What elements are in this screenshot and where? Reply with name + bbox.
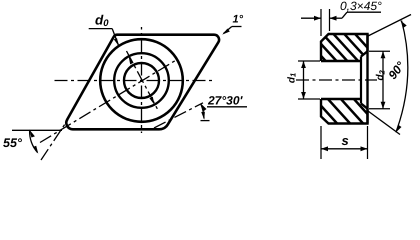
top hole wall: cylinder and countersink cone [321,51,368,61]
bottom slab outline [321,99,368,124]
arrows of circle diameter dimension on middle circle [129,56,134,64]
d2 dimension (right) [369,51,390,108]
section outline [321,34,368,124]
svg-text:27°30′: 27°30′ [207,93,243,107]
wire: vertical centerline of face view [141,27,143,133]
countersink outer circle d0 [100,39,183,122]
upper reference line [368,15,411,37]
wire: horizontal centerline of section [296,79,377,81]
wire: left edge extension below corner A (for 55° angle) [41,120,68,161]
label 1° with leader to top-right corner [222,14,243,35]
wire: long diagonal centerline A-C [40,60,177,143]
90° countersink angle dimension [368,15,411,135]
chamfer dimension 0,3×45° [301,0,382,36]
svg-text:55°: 55° [3,136,23,150]
d1 dimension (left) [287,61,321,99]
bottom hole wall: cylinder and countersink cone [321,99,368,109]
hole circle d1 [124,63,159,98]
countersink transition edge (cone-cylinder circle seen edge-on) [360,57,362,104]
label d0 with leader [89,13,119,47]
insert outline (rhombus with rounded corners) [66,35,219,130]
s thickness dimension [321,126,368,159]
svg-text:d1: d1 [287,73,298,83]
right face line [366,34,368,124]
svg-text:1°: 1° [233,14,244,26]
wire: short diagonal centerline B-D [127,51,159,111]
55° dimension arc with arrows [30,131,38,153]
svg-text:0,3×45°: 0,3×45° [340,0,382,13]
svg-text:s: s [342,133,349,148]
top slab outline [321,34,368,61]
wire: bottom edge extension line to the left of corner A [12,129,62,131]
angle arc [396,21,408,133]
countersink circle d2 [114,53,169,108]
lower reference line [368,111,400,135]
27°30' angle: reference line from corner D [154,103,203,128]
27°30' dimension arc with arrows and tick [201,105,204,119]
svg-text:d2: d2 [375,69,386,80]
wire: horizontal centerline of face view [52,80,212,82]
